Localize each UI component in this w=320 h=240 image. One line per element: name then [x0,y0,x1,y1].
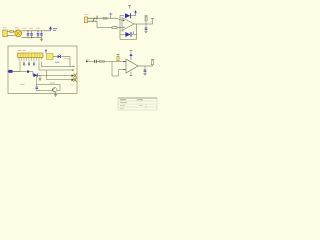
wire diode right [30,72,41,76]
wire output U3 [138,65,153,67]
value label C1 [23,27,27,29]
capacitor C8 [33,62,35,66]
label B1 [15,27,19,29]
fuse F1 [10,30,15,32]
bridge rectifier B1 [15,30,22,37]
IC U1 pins [19,58,42,60]
title text [120,100,143,109]
capacitor C9 [36,85,39,91]
wire noninverting input [116,18,122,20]
op-amp U2 [122,18,134,31]
resistor R1 [103,17,107,19]
power flag VCC2 [134,10,137,15]
input port label [87,59,91,61]
wire top rail [22,30,51,32]
label U1 [18,49,22,51]
ground [40,38,43,41]
label J1 [3,27,7,29]
ground [39,76,42,81]
title block [118,98,157,110]
junction node [38,30,39,31]
resistor R5 pullup [117,54,120,61]
value label U1 [23,49,27,51]
port flag 2 [72,78,78,82]
wire relay to LED [53,56,57,58]
wire output U2 [134,23,146,25]
wire mid horizontal [13,70,27,72]
ground [54,92,57,96]
label J2 [84,14,89,16]
capacitor C2 [30,31,33,38]
input port node [86,61,126,63]
wire to inverting input [117,27,122,29]
power stub down [130,72,133,76]
LED D3 [58,54,61,59]
resistor R3 vertical [145,16,148,24]
wire port row 1 [37,75,71,77]
wire input bottom [97,21,112,27]
net label text [50,82,55,84]
capacitor C1 [27,31,30,38]
wire pin1 up [19,62,21,72]
resistor R2 [112,27,117,29]
wire pins down [24,62,34,67]
junction node [30,37,33,38]
power flag label [128,5,131,8]
relay K1 [47,54,54,60]
junction tick [96,16,98,20]
diode D4 diamond [26,70,29,73]
label Q1 [41,83,46,85]
power mark D2 [132,31,134,34]
input port arrow [8,70,20,73]
power flag VCC5 [130,51,133,60]
diode D2 [120,32,137,37]
label bottom [70,84,74,86]
diode D1 [120,13,136,18]
capacitor C7 [28,62,30,66]
transistor Q1 [52,88,57,93]
capacitor C11 [144,66,147,73]
block border box [8,46,77,94]
ground [143,73,146,75]
resistor R6 [151,59,154,66]
connector J2 [84,17,97,23]
wire output node [146,23,153,25]
feedback wire U3 [112,61,126,76]
net label [64,58,70,60]
capacitor C10 series [95,60,97,63]
wire input top [97,17,116,19]
label D2 [121,30,125,32]
feedback loop wire [120,16,137,40]
value label C2 [29,27,33,29]
power flag VCC3 [151,19,154,25]
IC U1 [18,53,44,58]
label R [20,84,25,86]
wire right bus top [42,62,75,68]
capacitor C4 [40,31,43,38]
diode D5 [34,73,38,77]
IC U1 pin numbers [18,59,39,61]
op-amp U3 [123,59,138,73]
power flag VCC4 [45,49,47,54]
connector J1 [3,30,15,37]
title block top edge [118,97,157,99]
capacitor C5 to ground [144,24,147,32]
capacitor C3 [37,31,40,38]
pin label mark [93,18,95,21]
wire LED right [62,57,71,67]
power stub plus [109,13,112,19]
wire port row 2 [47,70,72,80]
wire bottom section [36,76,60,91]
power flag VCC1 [49,26,57,31]
resistor R4 series [100,60,105,62]
wire right bus mid [39,62,74,71]
junction node [28,30,29,31]
net label OUT [55,61,60,63]
port flag 1 [72,74,78,78]
capacitor C6 [23,62,25,66]
wire bottom rail [22,37,42,39]
value label C3 [36,27,40,29]
